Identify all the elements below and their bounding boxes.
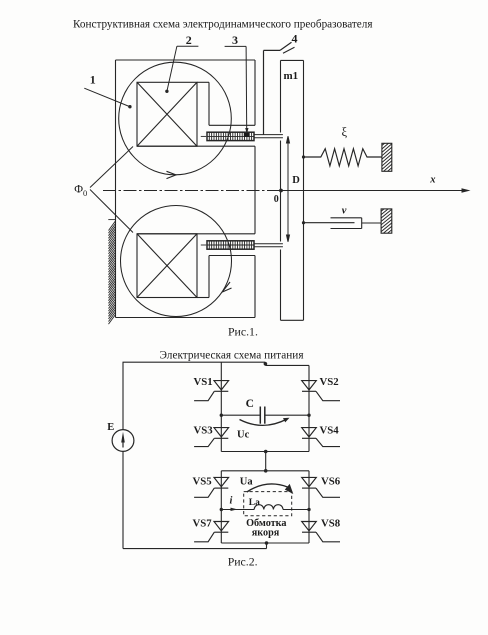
svg-text:C: C (246, 398, 254, 410)
svg-text:4: 4 (292, 31, 298, 45)
wire: upper-bridge right vertical (308, 365, 310, 451)
svg-text:Uc: Uc (237, 429, 250, 440)
source E (112, 430, 134, 452)
wire: E branch vertical (122, 362, 124, 548)
label 3 with leader (225, 33, 249, 134)
thyristor VS2 (302, 381, 340, 401)
node armature rail right (307, 508, 310, 511)
spring wall (380, 135, 394, 184)
label VS6 (321, 476, 341, 488)
node top (264, 362, 268, 366)
centre axis dash-dot (103, 190, 281, 192)
Phi0 leader upper (90, 147, 133, 188)
flux arrow upper (167, 171, 177, 178)
armature winding lower (hatched) (207, 241, 254, 249)
coil W1 upper (crossed square) (137, 82, 197, 146)
svg-text:La: La (249, 498, 260, 508)
label x (429, 175, 435, 186)
label Ua (240, 477, 254, 488)
wire: upper-bridge bottom rail (221, 451, 309, 453)
svg-text:VS5: VS5 (193, 476, 212, 488)
label VS4 (320, 425, 340, 437)
flux loop upper circle (119, 62, 232, 175)
flux arrow lower (222, 281, 232, 293)
label 0 (origin) (274, 194, 279, 205)
x axis line (281, 188, 471, 193)
wire: lower-bridge top rail (221, 470, 309, 472)
label 4 (292, 31, 298, 45)
thyristor VS3 (194, 428, 229, 447)
wire: upper-bridge left vertical (220, 362, 222, 451)
label m1 (284, 70, 299, 82)
wire 4 (lead-out) (264, 42, 295, 134)
label xi (342, 125, 348, 139)
svg-text:Конструктивная схема электроди: Конструктивная схема электродинамическог… (73, 19, 372, 31)
armature winding 3 upper (hatched) (207, 132, 254, 140)
wire: lower-bridge left vertical (220, 471, 222, 543)
capacitor C plates (260, 407, 265, 424)
wire: lower-bridge right vertical (308, 471, 310, 543)
label VS3 (194, 425, 214, 437)
inductor La (254, 505, 283, 510)
svg-text:VS8: VS8 (321, 518, 341, 530)
svg-text:Рис.2.: Рис.2. (228, 555, 258, 569)
svg-text:ξ: ξ (342, 125, 348, 139)
armature dark mark upper (244, 133, 250, 137)
label v (342, 206, 347, 217)
label i current (230, 496, 233, 507)
svg-text:VS7: VS7 (193, 518, 213, 530)
label VS2 (320, 376, 339, 388)
svg-text:VS3: VS3 (194, 425, 214, 437)
svg-text:Ua: Ua (240, 477, 254, 488)
node rail right (307, 414, 310, 417)
label Обмотка якоря (246, 518, 286, 539)
svg-text:Φ: Φ (74, 182, 83, 196)
armature centre tick lower (201, 244, 206, 246)
magnetic core block outline (116, 60, 256, 318)
label VS8 (321, 518, 341, 530)
node at rod on axis (279, 189, 283, 193)
svg-text:VS1: VS1 (194, 376, 213, 388)
wire: E to bridge top (123, 362, 266, 365)
svg-text:D: D (292, 175, 300, 186)
caption Рис.2. (228, 555, 258, 569)
dimension D line (287, 136, 290, 242)
dashed box armature winding (244, 492, 292, 516)
svg-text:i: i (230, 496, 233, 507)
svg-text:3: 3 (232, 33, 238, 47)
label La (249, 498, 260, 508)
thyristor VS4 (302, 428, 340, 447)
svg-text:Электрическая схема питания: Электрическая схема питания (160, 350, 304, 362)
damper wall (379, 201, 394, 247)
label E (107, 422, 114, 433)
svg-text:0: 0 (83, 188, 87, 198)
label Uc (237, 429, 250, 440)
svg-text:x: x (429, 175, 435, 186)
wire: bottom return to E (123, 543, 267, 549)
thyristor VS5 (194, 477, 229, 497)
armature centre tick upper (201, 135, 206, 137)
wire: bridge top rail right (265, 364, 309, 366)
thyristor VS1 (194, 381, 229, 401)
label C (246, 398, 254, 410)
spring xi (302, 149, 382, 166)
label VS7 (193, 518, 213, 530)
label Phi0 flux (74, 182, 87, 199)
wire: capacitor rail (221, 414, 309, 416)
node bottom (265, 541, 269, 545)
node rail left (220, 414, 223, 417)
wire: inter-bridge connector (265, 452, 267, 471)
svg-text:1: 1 (90, 73, 96, 87)
label 1 with leader (84, 73, 131, 109)
svg-text:m1: m1 (284, 70, 299, 82)
node bottom rail (264, 450, 268, 454)
node lower top rail (264, 469, 268, 473)
svg-text:0: 0 (274, 194, 279, 205)
Phi0 leader lower (90, 190, 133, 233)
svg-text:VS2: VS2 (320, 376, 339, 388)
thyristor VS8 (302, 522, 340, 542)
rod mass m1 (281, 60, 304, 320)
label VS1 (194, 376, 213, 388)
damper v (302, 218, 381, 229)
leads upper pair (254, 135, 283, 138)
label 2 with leader (165, 33, 198, 93)
svg-text:v: v (342, 206, 347, 217)
svg-text:2: 2 (186, 33, 192, 47)
title: Электрическая схема питания (160, 350, 304, 362)
thyristor VS7 (194, 522, 229, 542)
Ua arrow arc (247, 484, 293, 494)
svg-text:Рис.1.: Рис.1. (228, 325, 258, 339)
fixed wall hatching left (108, 220, 115, 325)
node armature rail left (220, 508, 223, 511)
caption Рис.1. (228, 325, 258, 339)
wire: lower-bridge bottom rail (221, 542, 309, 544)
thyristor VS6 (302, 477, 340, 497)
i arrow (231, 508, 238, 511)
wire: armature rail (221, 509, 309, 511)
svg-text:E: E (107, 422, 114, 433)
svg-text:VS4: VS4 (320, 425, 340, 437)
label VS5 (193, 476, 212, 488)
coil W2 lower (crossed square) (137, 234, 197, 298)
title: Конструктивная схема (73, 19, 372, 31)
svg-text:якоря: якоря (252, 528, 280, 539)
leads lower pair (254, 244, 283, 247)
flux loop lower circle (121, 206, 232, 317)
svg-text:VS6: VS6 (321, 476, 341, 488)
label D (292, 175, 300, 186)
Uc arrow arc (240, 418, 290, 426)
